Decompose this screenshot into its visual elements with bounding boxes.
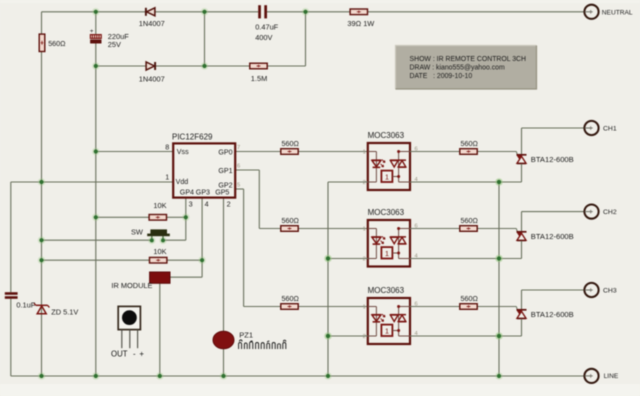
svg-text:0.1uF: 0.1uF xyxy=(16,300,35,309)
svg-text:MOC3063: MOC3063 xyxy=(368,131,405,140)
svg-text:4: 4 xyxy=(205,200,209,209)
svg-text:7: 7 xyxy=(237,145,240,151)
svg-text:1: 1 xyxy=(385,327,389,336)
svg-text:400V: 400V xyxy=(255,33,272,42)
svg-text:CH1: CH1 xyxy=(603,126,617,133)
svg-text:1: 1 xyxy=(385,173,389,182)
svg-text:GP5: GP5 xyxy=(215,189,229,197)
svg-text:OUT: OUT xyxy=(111,349,128,358)
svg-text:3: 3 xyxy=(189,200,193,209)
svg-text:560Ω: 560Ω xyxy=(282,139,300,148)
svg-text:2: 2 xyxy=(363,257,366,263)
svg-text:560Ω: 560Ω xyxy=(282,216,300,225)
svg-text:1: 1 xyxy=(165,173,169,182)
svg-text:MOC3063: MOC3063 xyxy=(368,286,405,295)
svg-text:SHOW : IR REMOTE CONTROL 3CH: SHOW : IR REMOTE CONTROL 3CH xyxy=(410,56,527,63)
svg-text:GP1: GP1 xyxy=(218,167,232,175)
svg-text:560Ω: 560Ω xyxy=(461,294,479,303)
svg-text:CH3: CH3 xyxy=(603,288,617,295)
svg-text:BTA12-600B: BTA12-600B xyxy=(531,310,574,319)
svg-text:DRAW : kiano555@yahoo.com: DRAW : kiano555@yahoo.com xyxy=(410,64,505,71)
svg-text:1N4007: 1N4007 xyxy=(139,74,165,83)
svg-text:10K: 10K xyxy=(153,247,166,256)
svg-text:1.5M: 1.5M xyxy=(251,74,267,83)
svg-text:SW: SW xyxy=(131,228,143,237)
svg-text:PZ1: PZ1 xyxy=(239,330,253,339)
svg-text:ZD 5.1V: ZD 5.1V xyxy=(51,308,78,317)
svg-text:1: 1 xyxy=(363,305,366,311)
svg-text:IR MODULE: IR MODULE xyxy=(111,281,152,290)
svg-text:PIC12F629: PIC12F629 xyxy=(172,133,213,142)
svg-text:+: + xyxy=(90,28,94,35)
svg-text:LINE: LINE xyxy=(604,373,619,380)
svg-text:CH2: CH2 xyxy=(603,209,617,216)
svg-text:8: 8 xyxy=(165,142,169,151)
svg-text:560Ω: 560Ω xyxy=(461,216,479,225)
svg-text:2: 2 xyxy=(363,180,366,186)
svg-text:39Ω 1W: 39Ω 1W xyxy=(347,19,374,28)
svg-text:560Ω: 560Ω xyxy=(461,139,479,148)
svg-text:2: 2 xyxy=(363,334,366,340)
svg-text:DATE : 2009-10-10: DATE : 2009-10-10 xyxy=(410,73,473,80)
svg-text:+: + xyxy=(139,349,144,358)
svg-text:Vdd: Vdd xyxy=(176,178,189,186)
svg-text:10K: 10K xyxy=(153,201,166,210)
svg-text:1: 1 xyxy=(363,227,366,233)
svg-text:GP0: GP0 xyxy=(218,149,232,157)
svg-text:1: 1 xyxy=(363,150,366,156)
svg-text:1N4007: 1N4007 xyxy=(139,19,165,28)
svg-text:BTA12-600B: BTA12-600B xyxy=(531,155,574,164)
svg-text:2: 2 xyxy=(227,200,231,209)
svg-text:560Ω: 560Ω xyxy=(282,294,300,303)
svg-text:0.47uF: 0.47uF xyxy=(255,23,278,32)
svg-text:25V: 25V xyxy=(108,40,121,49)
svg-text:NEUTRAL: NEUTRAL xyxy=(602,9,633,16)
svg-text:1: 1 xyxy=(385,249,389,258)
svg-text:GP3: GP3 xyxy=(196,189,210,197)
svg-text:5: 5 xyxy=(237,183,240,189)
svg-text:Vss: Vss xyxy=(177,148,189,156)
svg-text:MOC3063: MOC3063 xyxy=(368,208,405,217)
svg-text:-: - xyxy=(133,349,136,358)
svg-text:6: 6 xyxy=(237,164,240,170)
svg-text:560Ω: 560Ω xyxy=(48,39,66,48)
svg-text:GP4: GP4 xyxy=(180,189,194,197)
svg-text:BTA12-600B: BTA12-600B xyxy=(531,232,574,241)
